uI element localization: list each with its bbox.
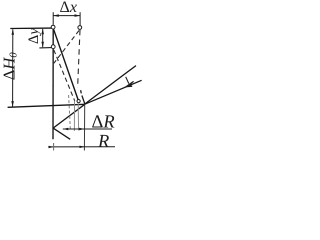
dimension Delta H0 line [12,29,14,106]
arrowhead Delta x right [75,14,81,17]
wire base horizontal line [8,104,85,107]
wire lower-left slope from tip to vertex [53,104,85,128]
wire solid edge E1 from node A to node D [53,28,78,101]
wire main vertical edge [52,28,54,139]
arrowhead Delta y top [41,29,44,35]
grey extension line g1 [69,95,71,131]
arrowhead R right [80,146,85,149]
arrowhead Delta H0 bottom [11,101,14,107]
tool end tick [126,77,129,84]
dimension R line [48,146,115,148]
arrowhead R left [49,146,54,149]
wire lower chamfer from vertex [53,128,70,139]
dimension Delta R line [63,128,112,130]
extension line g4 under tip [83,105,85,151]
arrowhead Delta H0 top [12,29,15,35]
arrowhead Delta x left [53,14,59,17]
node B circle [78,26,82,30]
dimension Delta x line [53,15,80,17]
svg-text:R: R [97,132,109,152]
dashed line DL from node C to displaced tip [54,50,75,101]
arrowhead Delta R left [63,128,69,131]
arrowhead Delta y bottom [41,42,44,48]
node A circle [51,25,55,29]
node C circle [51,45,55,49]
svg-text:Δx: Δx [60,0,78,16]
dimension Delta y line [42,29,44,48]
arrowhead on tool lower edge [126,81,133,86]
wire tool lower edge [85,80,142,104]
dashed line D2 from node B down to displaced tip [78,30,80,88]
grey extension line g3 [77,104,79,131]
extension tick at x 53 for R [53,143,55,151]
wire top edge of workpiece [10,27,51,29]
wire short horizontal at node C [39,47,51,49]
grey extension line g2 [73,101,75,131]
svg-text:ΔR: ΔR [92,112,115,132]
extension line above node A [52,12,54,25]
node D circle [77,100,80,103]
svg-text:Δy: Δy [26,28,42,44]
wire tool upper edge [85,66,136,104]
arrowhead Delta R right [79,128,85,131]
extension line above node B [79,12,81,25]
dashed line D1 from node B down-left [54,31,79,64]
wire solid segment E2 into tip [81,90,85,104]
